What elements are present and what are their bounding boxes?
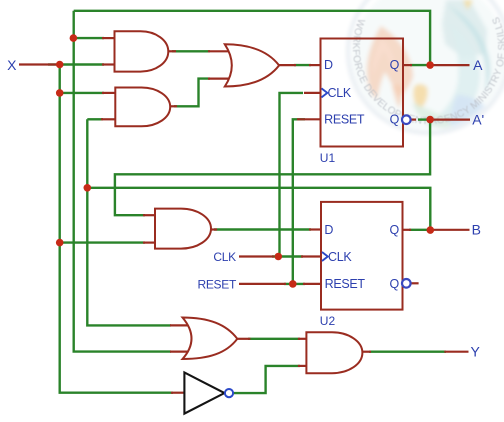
wire AND3 in stubs [143, 214, 155, 216]
wire AND4 in stubs [298, 338, 307, 340]
wire X vertical v1 + NOT feed [60, 65, 173, 393]
U2 clock chevron [322, 252, 328, 261]
wire U1 RESET stub [297, 118, 321, 120]
svg-text:Y: Y [471, 344, 481, 360]
teal crescent right [448, 5, 490, 93]
wire CLK label to U2 [272, 255, 303, 257]
light blue bottom right [449, 95, 492, 137]
svg-text:U1: U1 [320, 151, 336, 165]
wire NOT output to AND4 [233, 366, 300, 393]
svg-text:Q: Q [389, 223, 399, 237]
svg-text:A: A [473, 57, 483, 73]
svg-text:Q: Q [390, 58, 400, 72]
wire RESET label to U2 [284, 283, 305, 285]
wire AND1 upper input [73, 37, 104, 39]
wire X label stub [19, 63, 56, 65]
pale green bottom fan [412, 102, 479, 128]
svg-text:CLK: CLK [328, 86, 352, 100]
wire AND3 out stub [211, 228, 217, 230]
wire U1 D stub [309, 64, 321, 66]
U1 Qn bubble [402, 115, 411, 124]
wire U2 Q out stub [403, 229, 412, 231]
wire AND1 lower input [60, 63, 104, 65]
node dot CLK [275, 253, 283, 261]
wire B dot to label [430, 229, 469, 231]
gates [115, 31, 363, 373]
wire U2 D stub [309, 228, 321, 230]
flame orange [367, 26, 413, 99]
wire AND2 out stub [170, 105, 177, 107]
wire top A-line [74, 11, 430, 65]
faint outer ring [348, 0, 504, 133]
node dot AND3 branch [56, 239, 64, 247]
wire U2 Q to B dot [409, 229, 430, 231]
wire A' route to AND3 upper input [115, 120, 430, 216]
node dot AND2 branch [56, 89, 64, 97]
wire OR2 out stub [237, 338, 250, 340]
wire AND1 output to OR1 [172, 50, 210, 52]
wire U2 CLK stub [301, 255, 321, 257]
AND gate 1 [115, 31, 169, 71]
wire CLK label stub [239, 255, 274, 257]
wire OR2 output to AND4 [248, 338, 300, 340]
svg-text:RESET: RESET [197, 278, 236, 292]
dark red wire stubs [19, 38, 470, 393]
wire A vertical v2 + OR2 lower feed [74, 11, 171, 352]
pale backdrop disc [352, 0, 504, 136]
svg-text:RESET: RESET [325, 277, 366, 291]
wire OR1 out stub [279, 64, 296, 66]
svg-text:Q: Q [389, 277, 399, 291]
wire B vertical v3 + OR2 upper feed [87, 119, 171, 325]
node dot X junction [56, 61, 64, 69]
wire NOT in stub [171, 392, 184, 394]
wire OR1 in stubs [208, 50, 238, 52]
wire U1 CLK stub [304, 92, 321, 94]
node dot B [427, 226, 435, 234]
flip-flop U2 box [321, 202, 403, 310]
wire CLK vertical + U1 CLK [280, 93, 304, 257]
svg-text:RESET: RESET [324, 112, 365, 126]
wire A dot to label [430, 64, 469, 66]
OR gate 2 [183, 318, 238, 360]
wire U1 Qn to A' dot [418, 118, 430, 120]
top teal tent [442, 0, 487, 57]
node dot A' [426, 116, 434, 124]
wire U1 Q out stub [403, 64, 412, 66]
pale teal inner right [425, 22, 480, 126]
yellow wedge [413, 84, 427, 109]
U1 clock chevron [322, 88, 328, 97]
wire AND4 output [369, 351, 446, 353]
AND gate 4 [306, 332, 362, 373]
svg-text:CLK: CLK [328, 250, 352, 264]
node dot B branch [84, 184, 92, 192]
svg-text:X: X [7, 57, 17, 73]
svg-text:D: D [324, 223, 333, 237]
U2 Qn bubble [402, 279, 411, 288]
wire AND1 out stub [168, 50, 176, 52]
flame tail lower right [392, 85, 402, 108]
wire RESET vertical + U1 RESET [293, 119, 305, 284]
wire Y stub [444, 351, 468, 353]
wire AND3 output to U2 D [214, 228, 311, 230]
svg-text:D: D [324, 58, 333, 72]
svg-text:CLK: CLK [213, 250, 236, 264]
wire AND2 lower input [87, 118, 103, 120]
wire A' dot to label [430, 118, 470, 120]
wire AND2 upper input [60, 92, 104, 94]
flame inner light [373, 38, 395, 75]
wire OR2 in stubs [170, 324, 196, 326]
white ring mask [339, 0, 504, 142]
wire RESET label stub [239, 283, 286, 285]
NOT gate [184, 373, 224, 414]
svg-text:Q: Q [390, 113, 400, 127]
AND gate 2 [115, 88, 170, 127]
node dot AND1 branch [70, 34, 78, 42]
watermark logo [339, 0, 504, 142]
AND gate 3 [155, 209, 211, 249]
wire AND3 lower input [60, 241, 145, 243]
OR gate 1 [225, 44, 279, 86]
wire OR1 output to U1 D [294, 64, 311, 66]
wire AND1 in stubs [102, 37, 115, 39]
svg-text:A': A' [472, 111, 484, 127]
wire U2 RESET stub [303, 283, 321, 285]
wire B horizontal + down to B dot [87, 188, 430, 230]
svg-text:B: B [472, 222, 481, 238]
wire U2 Qn dangling stub [411, 282, 419, 284]
wire U1 Qn bubble stub [411, 118, 416, 120]
flip-flop U1 box [321, 39, 404, 147]
wire AND2 in stubs [102, 92, 115, 94]
node dot RESET [289, 280, 297, 288]
top yellow triangle [463, 0, 473, 10]
wire X input [48, 63, 60, 65]
wire AND4 out stub [362, 351, 371, 353]
NOT bubble [225, 389, 233, 397]
wire U1 Q to A dot [410, 64, 430, 66]
node dot A [426, 61, 434, 69]
wire AND2 output to OR1 [174, 79, 210, 107]
svg-text:U2: U2 [320, 314, 336, 328]
